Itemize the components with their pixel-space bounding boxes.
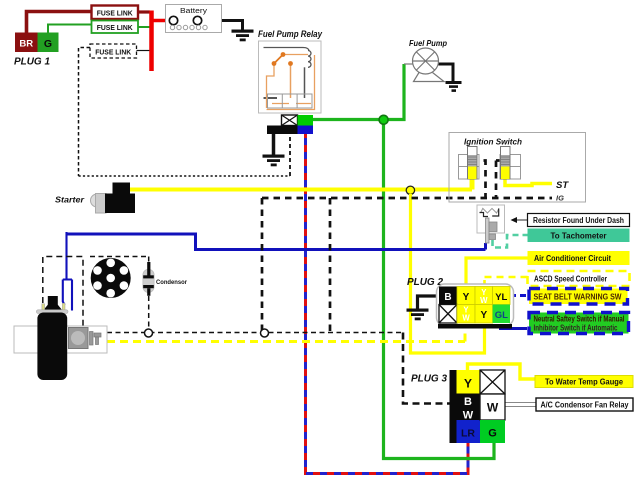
svg-text:W: W	[487, 401, 499, 415]
svg-text:ST: ST	[556, 180, 569, 191]
svg-text:Inhibitor Switch if Automatic: Inhibitor Switch if Automatic	[534, 324, 618, 333]
svg-text:B: B	[464, 396, 472, 408]
svg-text:IG: IG	[556, 194, 564, 203]
svg-text:PLUG 1: PLUG 1	[14, 57, 50, 68]
svg-text:W: W	[462, 314, 470, 323]
svg-text:YL: YL	[495, 292, 507, 303]
svg-text:B: B	[444, 292, 451, 303]
svg-text:Condensor: Condensor	[156, 279, 187, 286]
svg-text:FUSE LINK: FUSE LINK	[97, 9, 133, 18]
svg-text:FUSE LINK: FUSE LINK	[97, 23, 133, 32]
svg-text:SEAT BELT WARNING SW: SEAT BELT WARNING SW	[534, 293, 622, 302]
svg-text:Starter: Starter	[55, 196, 85, 205]
svg-text:To Tachometer: To Tachometer	[551, 231, 607, 240]
svg-text:G: G	[488, 428, 497, 440]
svg-text:W: W	[480, 296, 488, 305]
svg-text:To Water Temp Gauge: To Water Temp Gauge	[545, 378, 624, 387]
svg-text:FUSE LINK: FUSE LINK	[95, 48, 131, 57]
svg-text:A/C Condensor Fan Relay: A/C Condensor Fan Relay	[541, 401, 630, 410]
svg-text:PLUG 3: PLUG 3	[411, 374, 447, 385]
svg-text:ASCD Speed Controller: ASCD Speed Controller	[534, 275, 607, 284]
svg-text:Y: Y	[464, 377, 472, 391]
svg-text:Ignition Switch: Ignition Switch	[464, 137, 522, 147]
svg-text:Neutral Saftey Switch if Manua: Neutral Saftey Switch if Manual	[534, 314, 625, 323]
svg-text:Y: Y	[480, 310, 487, 321]
svg-text:Fuel Pump Relay: Fuel Pump Relay	[258, 29, 323, 39]
svg-text:Fuel Pump: Fuel Pump	[409, 38, 447, 48]
svg-text:G: G	[44, 38, 52, 50]
svg-text:Resistor Found Under Dash: Resistor Found Under Dash	[533, 216, 624, 225]
svg-text:Battery: Battery	[180, 8, 208, 15]
svg-text:Y: Y	[463, 292, 470, 303]
svg-text:Air Conditioner Circuit: Air Conditioner Circuit	[534, 254, 611, 263]
svg-text:BR: BR	[19, 39, 33, 50]
svg-text:LR: LR	[461, 428, 475, 440]
svg-text:W: W	[463, 410, 474, 422]
svg-text:GL: GL	[495, 310, 508, 321]
